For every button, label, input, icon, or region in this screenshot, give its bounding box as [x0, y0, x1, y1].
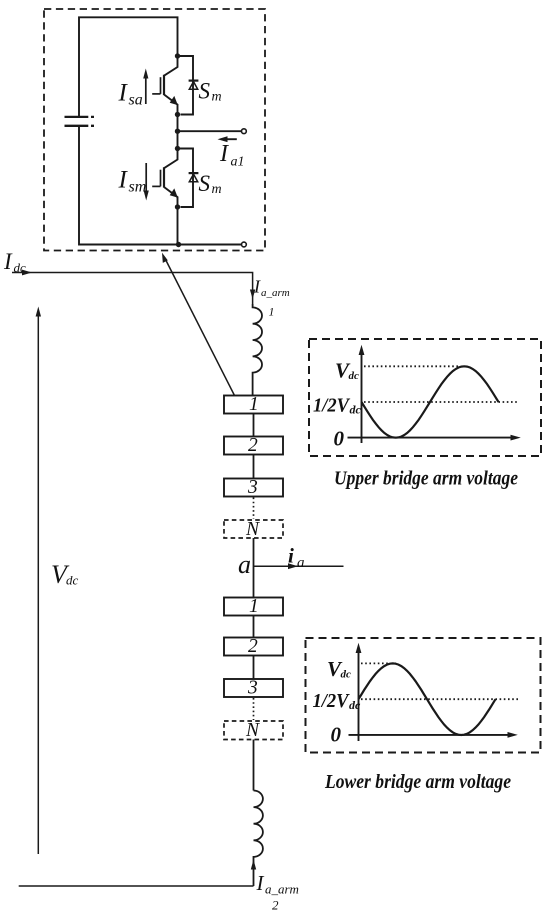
- svg-text:2: 2: [248, 636, 258, 657]
- svg-text:sa: sa: [129, 92, 143, 109]
- svg-text:dc: dc: [66, 573, 79, 588]
- svg-text:1/2V: 1/2V: [313, 690, 351, 712]
- svg-text:dc: dc: [349, 698, 361, 712]
- svg-text:i: i: [288, 544, 294, 568]
- svg-text:I: I: [219, 141, 229, 167]
- svg-text:a: a: [238, 550, 251, 579]
- svg-text:S: S: [199, 171, 211, 196]
- svg-text:a_arm: a_arm: [265, 882, 299, 897]
- svg-text:3: 3: [247, 477, 258, 498]
- svg-text:2: 2: [272, 898, 279, 913]
- svg-text:2: 2: [248, 435, 258, 456]
- svg-text:Lower bridge arm voltage: Lower bridge arm voltage: [324, 771, 511, 793]
- svg-text:Upper bridge arm voltage: Upper bridge arm voltage: [334, 468, 518, 490]
- svg-text:0: 0: [334, 427, 345, 451]
- svg-text:a_arm: a_arm: [261, 287, 290, 299]
- svg-text:m: m: [212, 90, 222, 105]
- svg-text:1/2V: 1/2V: [313, 395, 351, 417]
- svg-text:1: 1: [269, 305, 275, 319]
- svg-text:dc: dc: [350, 403, 362, 417]
- svg-text:N: N: [245, 519, 260, 540]
- svg-text:1: 1: [249, 394, 259, 415]
- svg-text:dc: dc: [341, 669, 352, 681]
- svg-text:m: m: [212, 182, 222, 197]
- svg-text:0: 0: [331, 723, 342, 747]
- svg-text:sm: sm: [129, 179, 147, 196]
- svg-text:a1: a1: [231, 155, 245, 170]
- svg-text:I: I: [3, 249, 13, 274]
- svg-text:dc: dc: [14, 260, 27, 275]
- svg-text:dc: dc: [349, 370, 360, 382]
- svg-text:I: I: [253, 277, 261, 297]
- svg-text:I: I: [256, 871, 265, 895]
- svg-text:a: a: [297, 555, 305, 571]
- svg-text:S: S: [199, 79, 211, 104]
- svg-text:N: N: [245, 720, 260, 741]
- svg-text:3: 3: [247, 678, 258, 699]
- svg-text:1: 1: [249, 596, 259, 617]
